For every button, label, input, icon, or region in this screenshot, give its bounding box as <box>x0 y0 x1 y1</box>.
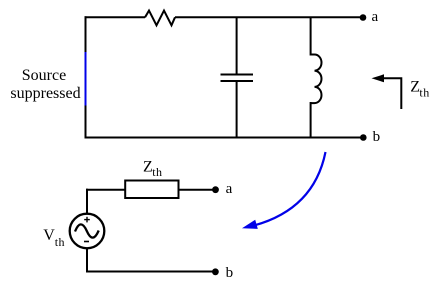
label a (top circuit) <box>372 9 379 25</box>
impedance Zth box <box>125 181 178 199</box>
svg-text:th: th <box>152 165 162 179</box>
label Zth (right side) <box>410 79 429 100</box>
source Vth (AC source circle) <box>70 214 105 249</box>
svg-text:suppressed: suppressed <box>10 85 80 102</box>
inductor top lead wire <box>310 17 312 55</box>
svg-text:Source: Source <box>22 67 66 84</box>
wire source bottom lead <box>86 249 88 273</box>
wire top-left segment <box>85 16 146 18</box>
svg-text:a: a <box>226 181 233 197</box>
wire top-right segment to terminal a <box>175 16 363 18</box>
label b (bottom circuit) <box>226 265 234 281</box>
Zth measurement arrow (hook into terminals) <box>372 74 402 109</box>
node b (top circuit terminal dot) <box>360 134 367 141</box>
node a (bottom circuit terminal dot) <box>212 186 219 193</box>
label Source suppressed <box>10 67 80 102</box>
svg-text:th: th <box>55 235 65 249</box>
label Vth <box>43 227 65 249</box>
wire from Zth box to terminal a <box>178 189 215 191</box>
wire left vertical (top circuit) <box>85 16 87 138</box>
svg-text:b: b <box>226 265 234 281</box>
svg-text:a: a <box>372 9 379 25</box>
source minus polarity mark <box>84 241 89 243</box>
blue transform arrow (curved) <box>242 152 326 229</box>
svg-text:b: b <box>373 129 381 145</box>
wire bottom segment to terminal b <box>85 137 364 139</box>
label b (top circuit) <box>373 129 381 145</box>
svg-text:V: V <box>43 227 55 244</box>
inductor bottom lead wire <box>310 102 312 138</box>
wire from source to Zth box <box>86 189 126 191</box>
node: source-suppressed highlight (blue segment) <box>85 52 87 106</box>
capacitor top lead wire <box>236 17 238 74</box>
node b (bottom circuit terminal dot) <box>212 268 219 275</box>
resistor <box>145 11 175 26</box>
node a (top circuit terminal dot) <box>360 14 367 21</box>
capacitor bottom lead wire <box>236 81 238 138</box>
label a (bottom circuit) <box>226 181 233 197</box>
inductor coil <box>311 55 322 104</box>
source plus polarity mark <box>84 217 90 223</box>
capacitor plates <box>221 75 254 82</box>
label Zth (bottom circuit, above box) <box>143 158 163 179</box>
svg-text:th: th <box>419 85 429 99</box>
source sine wave symbol <box>75 224 99 237</box>
wire bottom to terminal b (bottom circuit) <box>86 271 215 273</box>
wire source top lead <box>86 189 88 214</box>
